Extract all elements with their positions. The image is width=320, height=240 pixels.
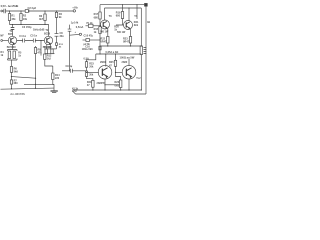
trimmer P1 <box>86 25 89 27</box>
svg-text:0R47: 0R47 <box>100 41 107 44</box>
resistor R7 <box>10 80 12 84</box>
wire input to T1 base <box>3 40 9 42</box>
svg-text:47k: 47k <box>38 52 43 55</box>
speaker vertical left <box>140 8 142 90</box>
svg-text:1k: 1k <box>94 31 97 34</box>
resistor R23b <box>85 71 87 76</box>
capacitor C10 <box>86 39 90 42</box>
svg-text:560 1W: 560 1W <box>117 31 126 34</box>
svg-text:BC56: BC56 <box>44 32 51 35</box>
wire T6 emitter <box>104 79 106 90</box>
node on rail <box>9 10 10 11</box>
trimmer P2 <box>45 49 47 54</box>
svg-text:0,5V~ bei 25dB: 0,5V~ bei 25dB <box>1 4 19 8</box>
terminal square <box>144 3 147 6</box>
resistor R3 <box>44 14 46 21</box>
wire to T4 base <box>116 19 124 26</box>
wire C10 row <box>83 39 86 41</box>
svg-text:BC550C: BC550C <box>7 46 16 49</box>
node on rail <box>20 10 21 11</box>
wire T6 collector <box>105 54 107 67</box>
svg-text:C2 2µ2: C2 2µ2 <box>28 6 37 10</box>
resistor R8 chain <box>35 46 37 48</box>
svg-text:33n: 33n <box>60 35 65 38</box>
svg-text:0,5mA: 0,5mA <box>76 26 84 29</box>
svg-text:20k: 20k <box>89 66 94 69</box>
wire chain to R24 <box>87 76 93 80</box>
capacitor C3 to T1 collector <box>12 25 14 37</box>
resistor R12a <box>56 43 58 46</box>
transistor T6 <box>98 65 112 79</box>
svg-text:4k7: 4k7 <box>39 18 44 21</box>
resistor R21 stub <box>136 5 138 19</box>
svg-text:9k: 9k <box>59 16 62 19</box>
svg-text:680: 680 <box>116 14 121 17</box>
vertical x100 chain <box>99 5 101 12</box>
wire y54 <box>96 53 142 55</box>
rail H3 <box>105 7 142 9</box>
svg-text:P2 C6: P2 C6 <box>44 46 51 49</box>
wire to T6 base <box>87 71 99 73</box>
wire to ground <box>53 80 54 92</box>
wire <box>20 21 22 25</box>
terminal +Ub <box>73 10 75 12</box>
wire L1 to R8 bottom <box>12 77 36 79</box>
svg-text:5k6: 5k6 <box>14 70 19 73</box>
wire <box>35 54 37 89</box>
node on rail <box>56 10 57 11</box>
wire block bottom bar <box>45 53 55 55</box>
capacitor C6a <box>13 51 15 59</box>
wire T4 top <box>128 8 130 21</box>
resistor R22 <box>107 37 109 44</box>
resistor R26 <box>116 72 121 80</box>
resistor R24 <box>92 80 94 87</box>
wire T3 emitter <box>107 28 109 37</box>
resistor R17 <box>99 12 101 19</box>
svg-text:45k: 45k <box>11 18 16 21</box>
svg-text:1k: 1k <box>1 54 4 57</box>
resistor R4 <box>55 12 57 17</box>
svg-text:20k: 20k <box>89 74 94 77</box>
svg-text:BC5: BC5 <box>8 33 13 36</box>
capacitor C8 <box>55 34 59 37</box>
resistor R12 <box>44 54 46 59</box>
resistor R2 <box>20 14 22 21</box>
wire to rail <box>11 84 13 89</box>
svg-text:2N30: 2N30 <box>100 61 106 64</box>
wire node row y24.5 <box>10 25 49 37</box>
resistor R5a <box>8 51 10 59</box>
svg-text:47: 47 <box>87 84 90 87</box>
wire <box>44 11 46 14</box>
wire <box>9 21 11 25</box>
wire down to R14 <box>45 59 53 73</box>
wire <box>99 19 101 27</box>
wire <box>130 43 132 46</box>
transistor T1 <box>8 36 16 44</box>
transistor T2 <box>44 36 52 44</box>
wire <box>107 43 109 46</box>
node on rail <box>44 10 45 11</box>
bottom return line <box>73 91 147 94</box>
wire T7 emitter <box>128 79 130 90</box>
svg-text:1k2: 1k2 <box>47 57 52 60</box>
wire T4 emitter <box>130 29 132 37</box>
capacitor C9 <box>62 69 87 73</box>
bottom rail right <box>73 89 142 91</box>
wire y54 corner down <box>87 54 96 62</box>
input terminal <box>1 40 3 42</box>
wire T2 legs down <box>47 44 51 49</box>
wire <box>86 67 88 71</box>
svg-text:An-96078S: An-96078S <box>10 92 25 96</box>
resistor R23 <box>129 37 131 44</box>
RC block under T1 <box>8 45 18 60</box>
svg-text:T3: T3 <box>109 15 113 18</box>
capacitor C4 <box>17 39 33 43</box>
svg-text:+Ub: +Ub <box>72 5 78 9</box>
wire <box>20 11 22 14</box>
svg-text:10k: 10k <box>23 18 28 21</box>
wire long vertical <box>56 17 58 49</box>
svg-text:680: 680 <box>94 16 99 19</box>
capacitor C1 <box>3 9 6 13</box>
wire to T7 base <box>116 66 123 72</box>
svg-text:0,65A a 4Ω: 0,65A a 4Ω <box>106 51 119 54</box>
wire top rail to +Ub <box>29 10 73 12</box>
svg-text:1k: 1k <box>18 54 21 57</box>
svg-text:3k9: 3k9 <box>134 24 139 27</box>
mid rail y46 <box>100 45 141 47</box>
svg-text:2N3055: 2N3055 <box>97 82 106 85</box>
speaker vertical right <box>145 7 147 95</box>
wire <box>11 60 13 67</box>
svg-text:100Ω an 5W: 100Ω an 5W <box>120 56 135 60</box>
resistor R6 <box>10 67 12 73</box>
speaker LS <box>140 46 143 55</box>
wire <box>56 11 58 12</box>
svg-text:1kHz±3dB: 1kHz±3dB <box>33 28 45 31</box>
resistor R14 <box>52 73 54 80</box>
terminal mid <box>79 33 81 35</box>
capacitor C9a <box>51 49 53 54</box>
svg-text:47: 47 <box>109 64 112 67</box>
top right rail H2 <box>100 4 144 6</box>
wire segment S1 <box>24 83 54 85</box>
wire <box>9 11 11 14</box>
svg-text:1µ 14k: 1µ 14k <box>71 21 79 24</box>
resistor R23 <box>85 62 87 67</box>
svg-text:2N30: 2N30 <box>122 61 128 64</box>
wire to mid terminal <box>70 31 80 71</box>
svg-text:100n+5k6: 100n+5k6 <box>82 48 94 51</box>
svg-text:4Ω: 4Ω <box>147 21 150 24</box>
resistor R19 chain <box>122 4 123 5</box>
resistor R1 <box>8 14 10 21</box>
svg-text:C10 47µ: C10 47µ <box>84 35 94 38</box>
svg-text:C3 150p: C3 150p <box>22 26 32 29</box>
capacitor C2 <box>25 10 28 13</box>
input terminal J1 <box>1 10 3 12</box>
capacitor C5 <box>33 39 44 43</box>
svg-text:+: + <box>75 31 77 34</box>
ground <box>51 90 58 92</box>
wire T2 base drop <box>40 41 42 56</box>
svg-text:C9 1µ: C9 1µ <box>66 65 73 68</box>
svg-text:680: 680 <box>14 82 19 85</box>
ground rail left <box>1 88 55 89</box>
wire T7 collector <box>128 59 130 66</box>
svg-text:P1 2k: P1 2k <box>87 23 94 25</box>
resistor R15 <box>99 27 101 34</box>
svg-text:NF: NF <box>0 35 4 38</box>
resistor R18 <box>99 46 101 50</box>
wire H3 corner to T3 <box>104 8 106 20</box>
wire and node <box>11 72 13 80</box>
svg-text:220: 220 <box>55 77 60 80</box>
svg-text:C4 1n: C4 1n <box>19 35 26 38</box>
wire <box>44 21 46 25</box>
svg-text:TL2: TL2 <box>136 77 141 80</box>
svg-text:0R47: 0R47 <box>123 41 130 44</box>
wire <box>99 34 101 55</box>
feedback block top bar <box>44 48 56 50</box>
wire mid horizontal <box>105 84 120 86</box>
wire top rail left <box>6 10 26 12</box>
svg-text:C5 1n: C5 1n <box>30 34 37 37</box>
resistor R25 <box>115 54 117 60</box>
transistor T7 <box>122 65 136 79</box>
